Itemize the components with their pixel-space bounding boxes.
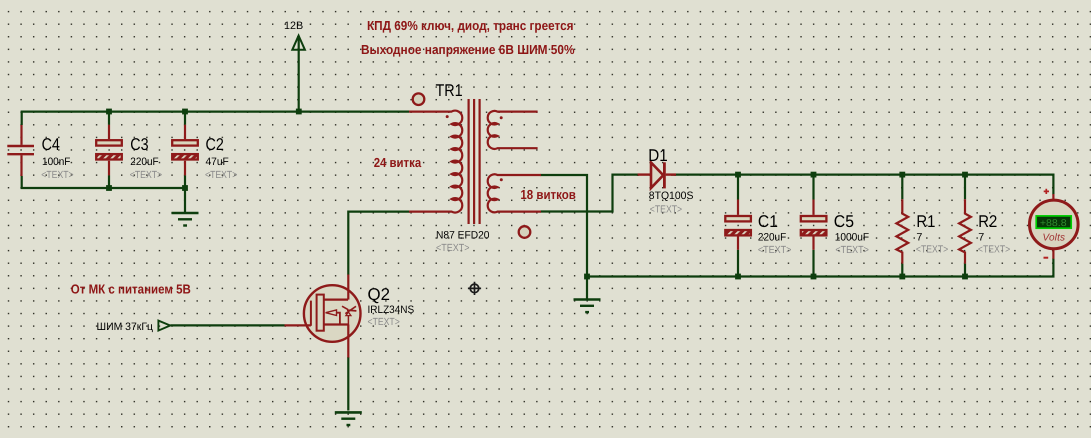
svg-text:R2: R2: [978, 212, 997, 231]
svg-text:C3: C3: [130, 135, 148, 154]
svg-text:<TEXT>: <TEXT>: [916, 244, 948, 255]
svg-text:<TEXT>: <TEXT>: [835, 245, 869, 256]
svg-text:IRLZ34NS: IRLZ34NS: [368, 304, 415, 316]
svg-text:C2: C2: [206, 135, 224, 154]
svg-text:7: 7: [978, 231, 984, 243]
svg-text:<TEXT>: <TEXT>: [758, 245, 792, 256]
svg-text:C4: C4: [42, 135, 60, 154]
svg-text:+88.8: +88.8: [1040, 218, 1067, 229]
svg-text:<TEXT>: <TEXT>: [130, 170, 162, 181]
svg-text:<TEXT>: <TEXT>: [41, 170, 73, 181]
svg-text:<TEXT>: <TEXT>: [436, 243, 470, 254]
svg-text:1000uF: 1000uF: [835, 232, 870, 244]
svg-text:N87 EFD20: N87 EFD20: [436, 229, 490, 241]
svg-text:<TEXT>: <TEXT>: [650, 205, 682, 216]
svg-text:8TQ100S: 8TQ100S: [649, 190, 694, 202]
svg-text:Q2: Q2: [368, 285, 391, 304]
svg-text:TR1: TR1: [436, 81, 463, 100]
svg-text:R1: R1: [916, 212, 935, 231]
svg-text:ШИМ 37кГц: ШИМ 37кГц: [97, 321, 154, 333]
svg-text:220uF: 220uF: [130, 156, 159, 168]
svg-text:<TEXT>: <TEXT>: [205, 170, 237, 181]
svg-text:100nF: 100nF: [42, 156, 71, 168]
svg-text:Volts: Volts: [1043, 233, 1066, 244]
svg-text:Выходное напряжение 6В ШИМ 50%: Выходное напряжение 6В ШИМ 50%: [361, 42, 575, 57]
svg-text:КПД 69% ключ, диод, транс грее: КПД 69% ключ, диод, транс греется: [367, 18, 574, 33]
svg-text:18 витков: 18 витков: [520, 187, 576, 202]
svg-text:<TEXT>: <TEXT>: [978, 244, 1010, 255]
svg-text:C5: C5: [834, 212, 854, 231]
svg-text:7: 7: [916, 231, 922, 243]
svg-text:12В: 12В: [284, 20, 303, 32]
svg-text:24 витка: 24 витка: [374, 155, 422, 170]
svg-text:От МК с питанием 5В: От МК с питанием 5В: [71, 282, 191, 297]
svg-text:C1: C1: [758, 212, 778, 231]
svg-text:220uF: 220uF: [758, 231, 787, 243]
svg-text:47uF: 47uF: [206, 156, 230, 168]
svg-text:<TEXT>: <TEXT>: [368, 317, 400, 328]
svg-text:D1: D1: [648, 146, 668, 165]
